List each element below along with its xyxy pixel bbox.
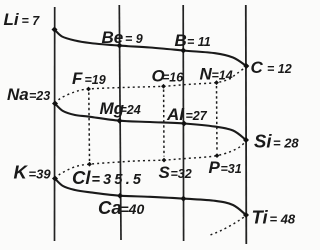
node B (180, 48, 186, 54)
node Be (117, 43, 123, 49)
node O (161, 84, 166, 89)
node Si (243, 137, 249, 143)
vertical dotted O-S (163, 90, 165, 157)
node S (162, 158, 167, 163)
node Na (52, 101, 58, 107)
vertical line 2 (119, 5, 121, 240)
svg-text:Ca=40: Ca=40 (98, 197, 144, 218)
node Ti (243, 212, 249, 218)
vertical dotted N-P (216, 86, 219, 152)
node on line 3 curve 3 (180, 196, 186, 202)
node N (214, 80, 219, 85)
solid curve Li-Be-B-C (55, 30, 247, 67)
dotted curve K-Cl-S-P-Si (55, 141, 246, 179)
dotted curve Na-F-O-N-C (55, 67, 246, 104)
node C (243, 63, 249, 69)
solid curve K-Ca-node-Ti (55, 179, 246, 216)
node P (215, 153, 220, 158)
node F (86, 87, 91, 92)
vertical line 3 (182, 5, 184, 241)
dotted stub to Ti (211, 216, 247, 235)
node K (52, 176, 58, 182)
vertical line 4 (245, 5, 248, 244)
node Al (181, 121, 187, 127)
solid curve Na-Mg-Al-Si (55, 104, 246, 141)
vertical line 1 (54, 7, 56, 241)
node Cl (87, 162, 92, 167)
node Mg (117, 118, 123, 124)
node Ca (117, 193, 123, 199)
vertical dotted F-Cl (88, 93, 91, 162)
node Li (52, 27, 58, 33)
